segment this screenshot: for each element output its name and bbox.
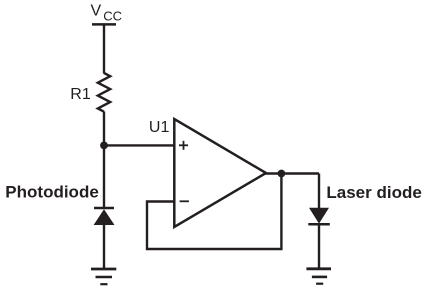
svg-text:U1: U1 (149, 119, 170, 136)
svg-text:CC: CC (103, 8, 122, 23)
svg-text:V: V (91, 3, 102, 20)
svg-text:R1: R1 (70, 86, 91, 103)
svg-text:Laser diode: Laser diode (326, 183, 421, 202)
svg-text:Photodiode: Photodiode (5, 183, 98, 202)
